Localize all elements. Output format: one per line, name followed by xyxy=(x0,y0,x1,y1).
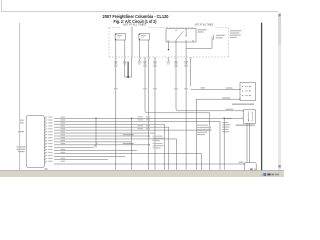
svg-text:HOT AT ALL TIMES: HOT AT ALL TIMES xyxy=(195,23,214,27)
svg-text:HOT AT ALL TIMES: HOT AT ALL TIMES xyxy=(123,23,146,27)
svg-text:}: } xyxy=(212,35,214,41)
